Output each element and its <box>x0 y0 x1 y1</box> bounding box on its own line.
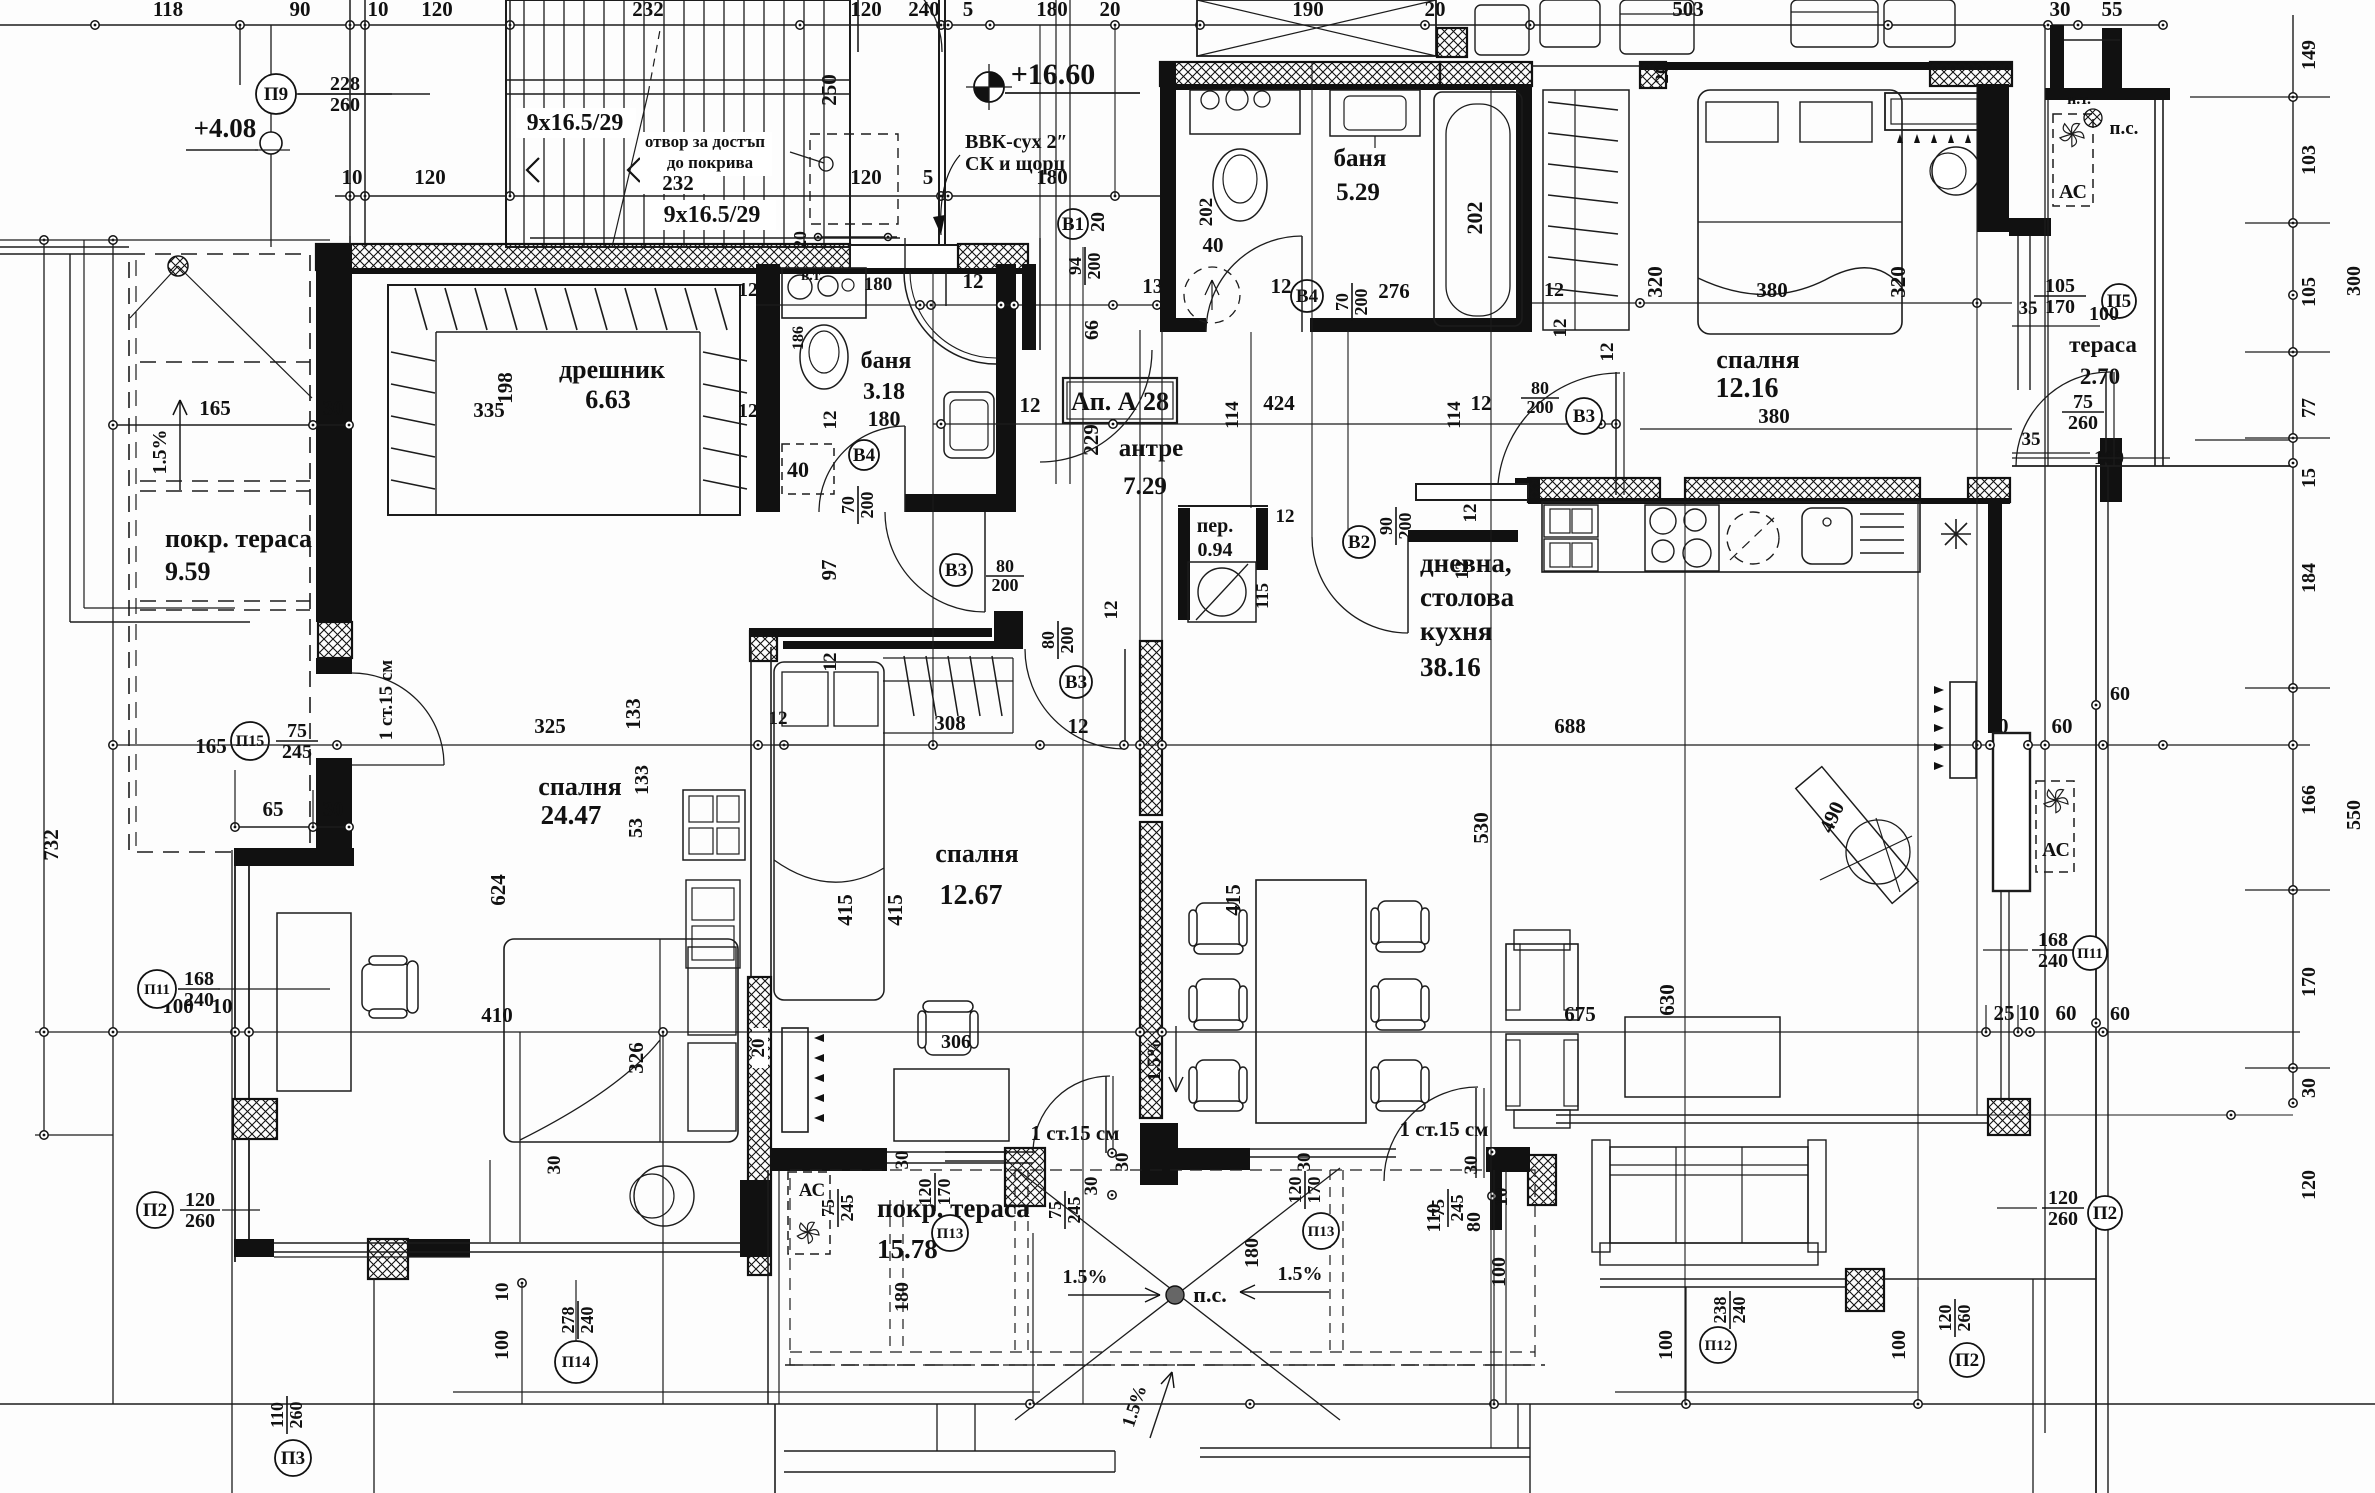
svg-text:2.70: 2.70 <box>2080 364 2120 389</box>
svg-text:75: 75 <box>1428 1199 1448 1217</box>
svg-text:АС: АС <box>2042 839 2070 861</box>
armchairs <box>1506 944 1578 1020</box>
bedroom3 bottom wall <box>770 1148 887 1171</box>
kitchen top wall hatched <box>1528 478 1660 502</box>
svg-text:+16.60: +16.60 <box>1011 58 1096 91</box>
svg-text:260: 260 <box>185 1210 215 1232</box>
svg-text:спалня: спалня <box>935 839 1018 868</box>
svg-text:П11: П11 <box>144 982 170 998</box>
vent <box>1860 513 1904 515</box>
inner dashed columns <box>1014 1170 1016 1352</box>
svg-text:1.5%: 1.5% <box>1278 1263 1323 1285</box>
svg-text:120: 120 <box>414 165 446 189</box>
svg-text:165: 165 <box>199 396 231 420</box>
svg-text:240: 240 <box>1729 1297 1749 1324</box>
svg-text:278: 278 <box>558 1307 578 1334</box>
svg-text:П12: П12 <box>1705 1338 1732 1354</box>
svg-text:100: 100 <box>1888 1330 1910 1360</box>
svg-text:202: 202 <box>1196 198 1217 227</box>
svg-text:5: 5 <box>923 165 934 189</box>
svg-text:15: 15 <box>2298 468 2320 488</box>
bathtub <box>1434 92 1522 326</box>
svg-text:9.59: 9.59 <box>165 557 211 586</box>
central shaft <box>1139 330 1141 641</box>
terrace X slopes <box>1015 1168 1340 1420</box>
door B3 living entry <box>1521 378 1559 417</box>
svg-text:415: 415 <box>883 894 907 926</box>
svg-text:10: 10 <box>2019 1001 2040 1025</box>
svg-text:276: 276 <box>1378 279 1410 303</box>
svg-text:дрешник: дрешник <box>559 355 665 384</box>
П11 left mark <box>138 970 176 1008</box>
svg-text:105: 105 <box>2298 277 2320 307</box>
svg-text:20: 20 <box>1100 0 1121 21</box>
dim line y424 hall <box>933 423 1620 425</box>
svg-text:80: 80 <box>1531 378 1549 398</box>
П13 marks <box>932 1215 968 1251</box>
terrace dashed outline <box>767 1170 769 1404</box>
kitchen counter <box>1542 502 1920 572</box>
svg-text:В4: В4 <box>853 445 876 466</box>
svg-text:П15: П15 <box>236 733 264 750</box>
svg-text:спалня: спалня <box>538 772 621 801</box>
svg-text:35: 35 <box>2022 429 2041 450</box>
svg-text:77: 77 <box>2298 398 2320 418</box>
svg-text:10: 10 <box>1491 1188 1512 1207</box>
kitchen sink <box>1802 508 1852 564</box>
adjacent furniture <box>1475 5 1529 55</box>
bed 24.47 <box>504 939 738 1142</box>
svg-text:300: 300 <box>2343 266 2365 296</box>
svg-text:30: 30 <box>2298 1078 2320 1098</box>
svg-text:80: 80 <box>996 556 1014 576</box>
svg-text:200: 200 <box>1527 397 1554 417</box>
radiator living <box>1950 682 1976 778</box>
svg-text:п.с.: п.с. <box>1193 1282 1226 1307</box>
пс mark <box>2084 109 2102 127</box>
svg-text:94: 94 <box>1065 257 1085 275</box>
svg-text:12: 12 <box>1597 343 1618 362</box>
bath2 right wall <box>1516 86 1532 332</box>
svg-text:202: 202 <box>1462 202 1487 235</box>
svg-text:0.94: 0.94 <box>1198 539 1233 561</box>
svg-text:200: 200 <box>992 575 1019 595</box>
svg-text:80: 80 <box>1038 631 1058 649</box>
svg-text:3.18: 3.18 <box>863 379 905 405</box>
svg-text:232: 232 <box>632 0 664 21</box>
svg-text:75: 75 <box>1045 1201 1065 1219</box>
svg-text:10: 10 <box>212 994 233 1018</box>
svg-text:688: 688 <box>1554 714 1586 738</box>
door from stairs <box>873 0 942 52</box>
svg-text:65: 65 <box>263 797 284 821</box>
living bottom window <box>1556 1114 1988 1116</box>
elevation +16.60 <box>974 72 1004 102</box>
svg-text:170: 170 <box>2298 967 2320 997</box>
svg-text:60: 60 <box>2110 1003 2130 1025</box>
svg-text:260: 260 <box>1954 1305 1974 1332</box>
svg-text:110: 110 <box>267 1402 287 1428</box>
svg-text:200: 200 <box>1084 253 1104 280</box>
bedroom3 top wall double <box>749 628 992 637</box>
svg-text:24.47: 24.47 <box>541 800 602 830</box>
svg-text:165: 165 <box>195 734 227 758</box>
svg-text:168: 168 <box>184 968 214 990</box>
svg-text:антре: антре <box>1119 435 1184 462</box>
svg-text:198: 198 <box>493 372 517 404</box>
svg-text:149: 149 <box>2298 40 2320 70</box>
svg-text:В3: В3 <box>945 560 967 581</box>
svg-text:1.5%: 1.5% <box>1144 1039 1165 1082</box>
door 1 ст.15 см to bedroom <box>352 673 444 765</box>
П2 bottom mark <box>1950 1343 1984 1377</box>
apartment top wall hatched band <box>316 244 850 270</box>
svg-text:5: 5 <box>963 0 974 21</box>
closet-bath wall <box>756 264 780 512</box>
svg-text:120: 120 <box>1285 1177 1305 1204</box>
svg-text:133: 133 <box>631 765 653 795</box>
svg-text:12: 12 <box>1101 601 1122 620</box>
svg-text:120: 120 <box>1935 1305 1955 1332</box>
toilet <box>800 325 848 389</box>
stool <box>1932 147 1980 195</box>
apartment number box <box>1063 378 1177 423</box>
svg-text:240: 240 <box>2038 950 2068 972</box>
lower roof outline <box>69 254 71 622</box>
stair-corridor wall <box>938 0 940 247</box>
svg-text:В3: В3 <box>1065 672 1087 693</box>
svg-text:53: 53 <box>625 818 647 838</box>
tv board diagonal <box>1796 767 1918 904</box>
П15 dim mark <box>231 722 269 760</box>
svg-text:П11: П11 <box>2077 946 2103 962</box>
svg-text:тераса: тераса <box>2069 332 2137 357</box>
svg-text:12: 12 <box>1550 319 1571 338</box>
closet hangers top <box>415 288 427 330</box>
svg-text:60: 60 <box>2052 714 2073 738</box>
П11 right mark <box>2073 936 2107 970</box>
AC box <box>2053 114 2093 206</box>
svg-text:732: 732 <box>39 829 63 861</box>
svg-text:7.29: 7.29 <box>1123 473 1167 500</box>
left axis vertical lines <box>43 240 45 1135</box>
bedroom2 dim lines <box>1532 302 2012 304</box>
svg-text:120: 120 <box>2298 1170 2320 1200</box>
svg-text:30: 30 <box>1081 1177 1102 1196</box>
kitchen right wall <box>1988 502 2002 733</box>
closet walls <box>388 285 740 515</box>
svg-text:232: 232 <box>662 171 694 195</box>
svg-text:6.63: 6.63 <box>585 385 631 414</box>
svg-text:10: 10 <box>368 0 389 21</box>
svg-text:245: 245 <box>837 1195 857 1222</box>
svg-text:415: 415 <box>833 894 857 926</box>
svg-text:325: 325 <box>534 714 566 738</box>
svg-text:170: 170 <box>2045 296 2075 318</box>
svg-text:10: 10 <box>492 1283 513 1302</box>
svg-text:12: 12 <box>1460 504 1481 523</box>
svg-text:баня: баня <box>1334 145 1387 172</box>
svg-text:1 ст.15 см: 1 ст.15 см <box>1400 1117 1489 1141</box>
svg-text:186: 186 <box>790 326 807 350</box>
terrace bottom wall <box>2012 465 2296 467</box>
svg-text:В1: В1 <box>1062 214 1084 235</box>
sofa <box>1610 1147 1808 1243</box>
stairwell <box>506 0 850 247</box>
svg-text:550: 550 <box>2343 800 2365 830</box>
svg-text:9x16.5/29: 9x16.5/29 <box>527 110 624 136</box>
coffee table <box>1625 1017 1780 1097</box>
П9 level mark <box>256 74 296 114</box>
bath2 top hatched wall <box>1160 62 1440 86</box>
svg-text:115: 115 <box>1252 583 1272 609</box>
svg-text:30: 30 <box>892 1151 913 1170</box>
svg-text:260: 260 <box>2048 1208 2078 1230</box>
svg-text:260: 260 <box>2068 412 2098 434</box>
door B3 upper <box>885 512 985 612</box>
bath dim line <box>756 304 1160 306</box>
door B4 <box>849 440 879 470</box>
svg-text:97: 97 <box>817 560 841 581</box>
svg-text:70: 70 <box>1332 293 1352 311</box>
svg-text:п.с.: п.с. <box>2110 118 2139 139</box>
П12 mark <box>1700 1327 1736 1363</box>
svg-text:200: 200 <box>1057 627 1077 654</box>
shelving units <box>683 790 745 860</box>
svg-text:9x16.5/29: 9x16.5/29 <box>664 202 761 228</box>
slope arrows <box>1068 1294 1160 1296</box>
svg-text:410: 410 <box>481 1003 513 1027</box>
door bottom right living <box>1384 1087 1478 1181</box>
dining table <box>1256 880 1366 1123</box>
door B2 <box>1343 526 1375 558</box>
svg-text:12: 12 <box>1020 393 1041 417</box>
П14 mark <box>555 1341 597 1383</box>
svg-text:П2: П2 <box>2093 1203 2117 1224</box>
washer dashed bath2 <box>1184 267 1240 323</box>
svg-text:12.16: 12.16 <box>1716 373 1779 404</box>
svg-text:20: 20 <box>1425 0 1446 21</box>
hall top walls <box>1022 264 1036 350</box>
svg-text:20: 20 <box>1087 212 1109 232</box>
fridge <box>1941 519 1971 549</box>
svg-text:В2: В2 <box>1348 532 1370 553</box>
bench shelf <box>1885 93 1983 130</box>
svg-text:12: 12 <box>1471 391 1492 415</box>
hatch block top <box>1437 28 1467 57</box>
svg-text:170: 170 <box>1304 1177 1324 1204</box>
svg-text:П2: П2 <box>1955 1350 1979 1371</box>
svg-text:отвор за достъп: отвор за достъп <box>645 132 765 151</box>
svg-text:12: 12 <box>738 400 758 422</box>
П3 mark <box>275 1440 311 1476</box>
desk bedroom3 <box>894 1069 1009 1141</box>
slope mark <box>168 256 188 276</box>
top right corner wall <box>2045 88 2170 100</box>
left step wall <box>234 848 354 866</box>
svg-text:100: 100 <box>491 1330 513 1360</box>
bath2 left wall <box>1160 62 1176 332</box>
hall door arc <box>1040 350 1152 462</box>
svg-text:326: 326 <box>624 1042 648 1074</box>
svg-text:спалня: спалня <box>1716 345 1799 374</box>
svg-text:120: 120 <box>850 165 882 189</box>
svg-text:180: 180 <box>1241 1238 1263 1268</box>
svg-text:308: 308 <box>934 711 966 735</box>
dining chairs <box>1189 903 1247 954</box>
svg-text:12: 12 <box>1271 274 1292 298</box>
svg-text:пер.: пер. <box>1197 515 1234 537</box>
shower <box>945 272 947 306</box>
top dimension line <box>0 24 2165 26</box>
svg-text:30: 30 <box>2050 0 2071 21</box>
second dimension line <box>335 195 1160 197</box>
svg-text:245: 245 <box>1064 1197 1084 1224</box>
svg-text:530: 530 <box>1469 812 1493 844</box>
bath2 sink <box>1190 90 1300 134</box>
svg-text:228: 228 <box>330 73 360 95</box>
svg-text:120: 120 <box>850 0 882 21</box>
svg-text:20: 20 <box>748 1039 769 1058</box>
svg-text:30: 30 <box>1461 1156 1482 1175</box>
svg-text:200: 200 <box>1351 289 1371 316</box>
svg-text:1.5%: 1.5% <box>149 430 171 475</box>
svg-text:60: 60 <box>2056 1001 2077 1025</box>
lower wing walls <box>1600 1278 1846 1280</box>
svg-text:12: 12 <box>1276 506 1295 527</box>
svg-text:15.78: 15.78 <box>877 1234 938 1264</box>
bed 12.67 <box>774 662 884 1000</box>
svg-text:П14: П14 <box>562 1354 590 1371</box>
svg-text:424: 424 <box>1263 391 1295 415</box>
svg-text:168: 168 <box>2038 929 2068 951</box>
svg-text:114: 114 <box>1222 401 1243 429</box>
bedroom3 side hatch wall <box>750 647 752 977</box>
sink counter <box>782 268 866 318</box>
svg-text:5.29: 5.29 <box>1336 179 1380 206</box>
bedroom3 door bottom <box>1033 1076 1110 1153</box>
elevator box with X <box>1197 0 1436 56</box>
svg-text:1 ст.15 см: 1 ст.15 см <box>376 660 397 741</box>
svg-text:624: 624 <box>486 874 510 906</box>
bedroom2 right wall <box>1977 84 2009 232</box>
open closet hangers <box>883 680 1013 682</box>
aux horizontals <box>35 1134 113 1136</box>
balcony door bedroom2 <box>2100 438 2122 502</box>
svg-text:25: 25 <box>1994 1001 2015 1025</box>
svg-text:12: 12 <box>963 269 984 293</box>
dim fractions bottom <box>818 1189 857 1227</box>
washbasin <box>944 392 994 458</box>
svg-text:30: 30 <box>323 797 344 821</box>
svg-text:240: 240 <box>184 989 214 1011</box>
svg-text:66: 66 <box>1081 320 1103 340</box>
svg-text:180: 180 <box>864 274 893 295</box>
shaft dashed box <box>810 134 898 224</box>
desk left <box>277 913 351 1091</box>
svg-text:до покрива: до покрива <box>667 153 754 172</box>
dim 165 30 upper <box>113 424 352 426</box>
svg-text:П3: П3 <box>281 1448 305 1469</box>
wall right of B2 <box>1408 530 1518 542</box>
svg-text:75: 75 <box>287 720 307 742</box>
roof terrace 9.59 dashed outline <box>129 254 310 852</box>
top-left inner corner lines <box>530 237 900 239</box>
svg-text:в.т.: в.т. <box>801 268 823 284</box>
svg-text:12: 12 <box>820 411 841 430</box>
svg-text:20: 20 <box>1652 65 1673 84</box>
svg-text:кухня: кухня <box>1420 616 1492 646</box>
svg-text:200: 200 <box>857 492 877 519</box>
svg-text:90: 90 <box>290 0 311 21</box>
svg-text:380: 380 <box>1756 278 1788 302</box>
svg-text:90: 90 <box>1376 517 1396 535</box>
svg-text:114: 114 <box>1444 401 1465 429</box>
svg-text:180: 180 <box>891 1282 913 1312</box>
svg-text:П9: П9 <box>264 84 288 105</box>
svg-text:30: 30 <box>544 1156 565 1175</box>
svg-text:320: 320 <box>1643 266 1667 298</box>
terrace walls top <box>770 1148 852 1170</box>
svg-text:1.5%: 1.5% <box>1063 1266 1108 1288</box>
svg-text:415: 415 <box>1221 884 1245 916</box>
building right edge lower <box>2095 466 2097 1493</box>
svg-text:190: 190 <box>1292 0 1324 21</box>
П2 right mark <box>2088 1196 2122 1230</box>
svg-text:В4: В4 <box>1296 286 1319 307</box>
svg-text:120: 120 <box>915 1179 935 1206</box>
dim 65 30 <box>235 826 352 828</box>
bottom long line <box>0 1403 2375 1405</box>
svg-text:103: 103 <box>2298 145 2320 175</box>
svg-text:12.67: 12.67 <box>940 880 1003 911</box>
svg-text:1 ст.15 см: 1 ст.15 см <box>1031 1121 1120 1145</box>
svg-text:380: 380 <box>1758 404 1790 428</box>
svg-text:40: 40 <box>1203 233 1224 257</box>
bed 12.16 <box>1698 90 1902 334</box>
svg-text:306: 306 <box>941 1031 971 1053</box>
svg-text:75: 75 <box>2073 391 2093 413</box>
axis through hall <box>1250 332 1252 508</box>
bath2 bottom wall <box>1310 318 1532 332</box>
svg-text:12: 12 <box>738 279 758 301</box>
svg-text:покр. тераса: покр. тераса <box>165 524 312 553</box>
bottom structure lines <box>774 1404 776 1493</box>
bedroom2 bottom dim <box>1532 459 2012 461</box>
svg-text:30: 30 <box>1294 1153 1315 1172</box>
left exterior wall upper <box>316 244 352 622</box>
svg-text:75: 75 <box>818 1199 838 1217</box>
svg-text:118: 118 <box>153 0 183 21</box>
niche 40 dashed <box>782 444 834 494</box>
global dim line y1032 <box>35 1031 2300 1033</box>
svg-text:60: 60 <box>2110 683 2130 705</box>
svg-text:180: 180 <box>868 406 901 431</box>
interior vertical axes <box>932 270 934 745</box>
svg-text:ВВК-сух 2″: ВВК-сух 2″ <box>965 131 1068 153</box>
svg-text:184: 184 <box>2298 563 2320 593</box>
svg-text:120: 120 <box>421 0 453 21</box>
main dim line y745 <box>330 744 2310 746</box>
bedroom2 wardrobe <box>1543 90 1629 330</box>
closet hangers right <box>703 352 747 361</box>
svg-text:СК и щорц: СК и щорц <box>965 153 1065 175</box>
svg-text:100: 100 <box>2089 303 2119 325</box>
terrace 2.70 outline <box>2047 90 2049 466</box>
svg-text:260: 260 <box>330 94 360 116</box>
П2 left mark <box>137 1192 173 1228</box>
svg-text:дневна,: дневна, <box>1420 548 1512 578</box>
